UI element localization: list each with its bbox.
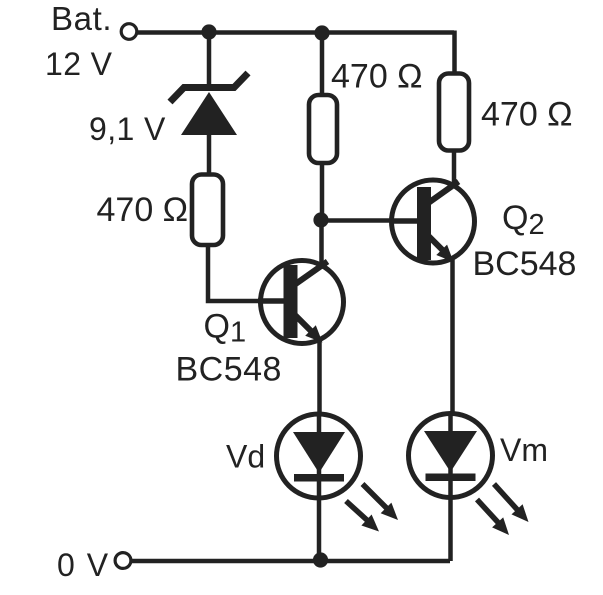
- zener diode D1 9,1V: [170, 73, 248, 135]
- wire node B to Q2 base: [320, 218, 417, 223]
- wire Q2 emitter to LED Vm: [450, 258, 455, 413]
- wire Q1 emitter to LED Vd: [317, 339, 322, 413]
- node B junction R2 / Q2 base / Q1 collector: [313, 212, 328, 227]
- wire R2 top lead: [320, 32, 325, 95]
- wire LED Vd cathode to bottom rail: [317, 412, 322, 561]
- terminal 0V: [115, 553, 131, 569]
- wire R3 bottom to Q2 collector: [452, 150, 457, 183]
- LED Vd: [277, 414, 361, 498]
- svg-text:BC548: BC548: [176, 351, 282, 389]
- wire R2 bottom to node B: [320, 163, 325, 222]
- svg-text:9,1 V: 9,1 V: [89, 111, 166, 147]
- LED Vd emission arrow 1: [346, 501, 379, 532]
- wire zener top lead: [207, 31, 212, 86]
- wire R1 bottom to Q1 base: [208, 245, 285, 301]
- svg-text:Bat.: Bat.: [51, 0, 112, 37]
- resistor R2 470 ohm (middle): [309, 95, 337, 163]
- wire top rail: [136, 30, 454, 35]
- terminal +12V: [121, 24, 137, 40]
- LED Vm emission arrow 2: [494, 484, 529, 522]
- svg-text:BC548: BC548: [473, 245, 577, 283]
- svg-text:470 Ω: 470 Ω: [97, 191, 189, 229]
- resistor R1 470 ohm: [192, 175, 223, 246]
- wire bottom rail: [132, 559, 450, 564]
- wire zener bottom lead: [207, 132, 212, 174]
- svg-text:Vd: Vd: [226, 439, 265, 475]
- svg-text:470 Ω: 470 Ω: [331, 58, 423, 96]
- node junction top rail / zener: [201, 24, 216, 39]
- svg-text:12 V: 12 V: [45, 46, 113, 82]
- svg-text:470 Ω: 470 Ω: [481, 96, 573, 134]
- LED Vm emission arrow 1: [477, 500, 509, 536]
- svg-text:0 V: 0 V: [57, 547, 110, 583]
- transistor Q1 BC548: [258, 261, 344, 344]
- LED Vd emission arrow 2: [363, 484, 399, 520]
- resistor R3 470 ohm (right): [439, 74, 469, 151]
- svg-text:Vm: Vm: [500, 432, 548, 468]
- LED Vm: [409, 414, 493, 498]
- transistor Q2 BC548: [390, 180, 475, 263]
- node junction bottom rail / LED Vd: [313, 552, 328, 567]
- wire top-right drop to R3: [452, 31, 457, 75]
- node junction top rail / R2: [314, 25, 329, 40]
- wire node B down to Q1 collector: [319, 220, 324, 264]
- wire LED Vm cathode to bottom rail: [448, 412, 453, 561]
